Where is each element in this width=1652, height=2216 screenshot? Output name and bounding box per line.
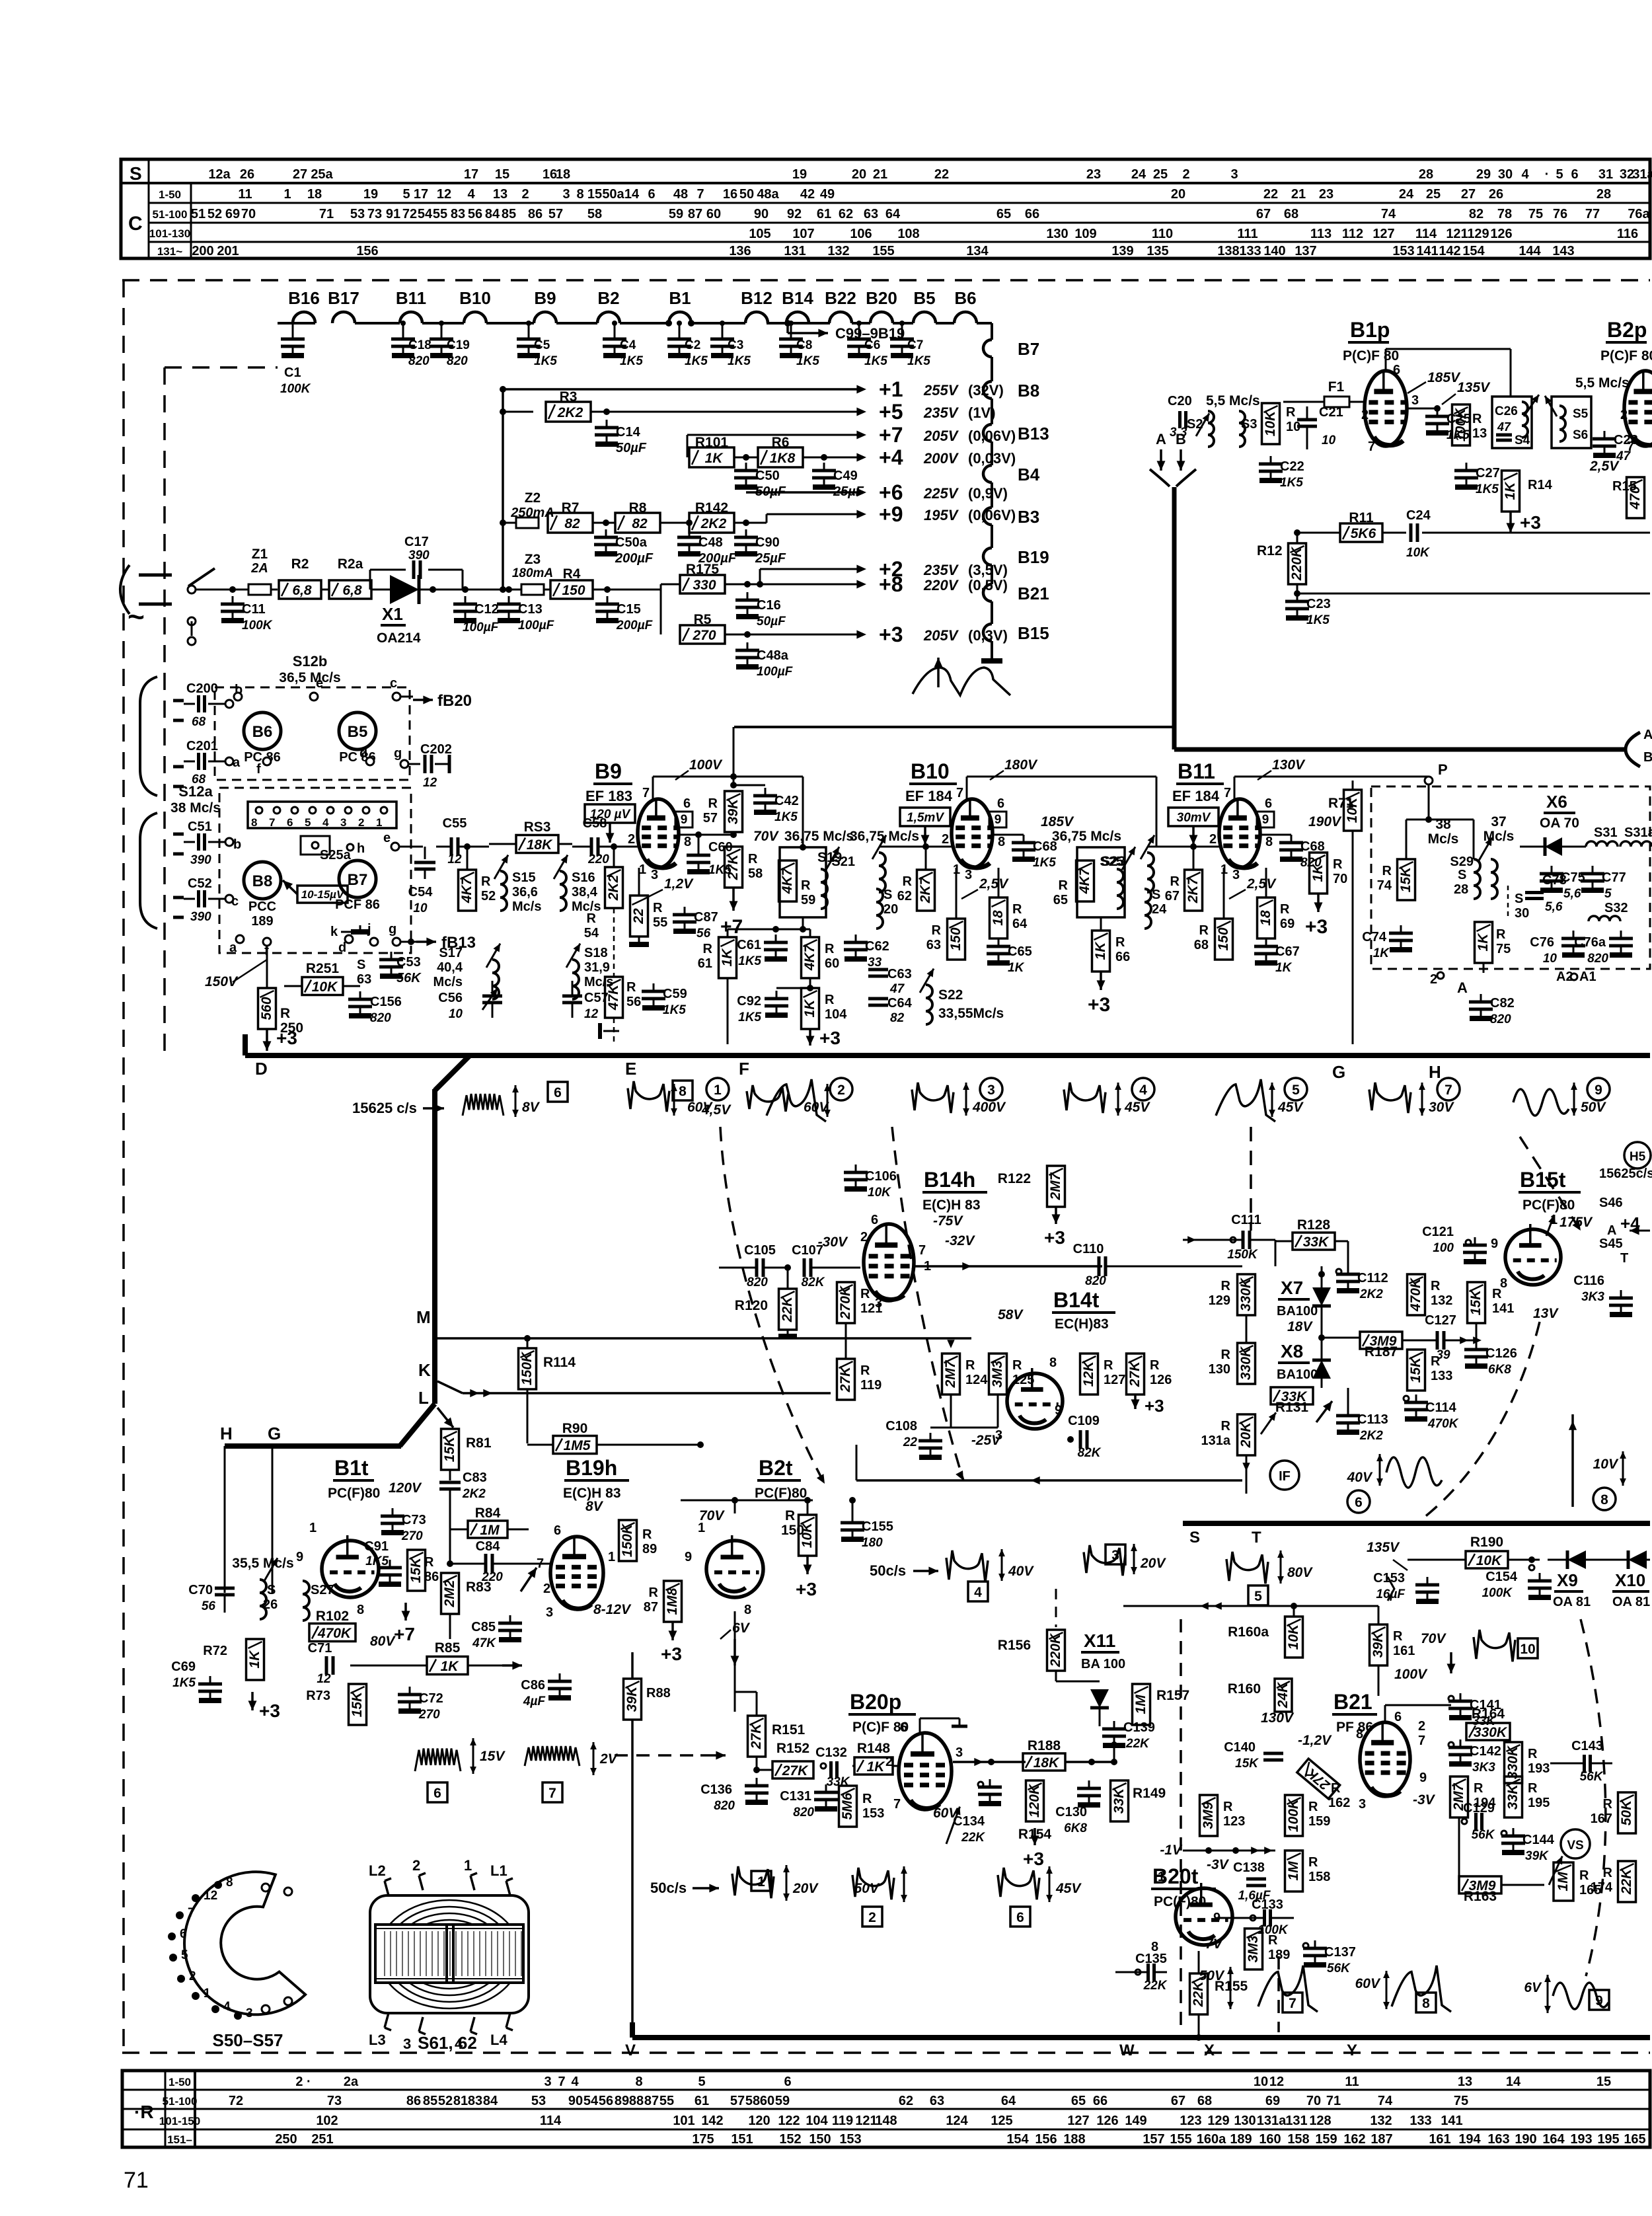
svg-text:18: 18: [307, 187, 322, 202]
svg-text:63: 63: [930, 2094, 944, 2108]
svg-text:5: 5: [1556, 167, 1563, 182]
svg-text:1K5: 1K5: [365, 1554, 389, 1568]
resistor R61 1K: [719, 937, 737, 978]
svg-text:57: 57: [703, 811, 718, 825]
svg-text:100K: 100K: [242, 619, 273, 632]
yoke pin 4: [211, 2005, 219, 2013]
svg-text:4K7: 4K7: [459, 876, 474, 903]
svg-text:RS3: RS3: [524, 820, 551, 835]
svg-text:C143: C143: [1571, 1739, 1603, 1753]
svg-text:2 ·: 2 ·: [295, 2075, 311, 2089]
svg-text:33,55Mc/s: 33,55Mc/s: [938, 1006, 1004, 1021]
svg-text:6K8: 6K8: [1064, 1821, 1087, 1835]
svg-text:12: 12: [1269, 2075, 1284, 2089]
svg-text:10K: 10K: [1263, 410, 1278, 436]
svg-text:7: 7: [188, 1906, 195, 1920]
svg-text:1: 1: [376, 816, 382, 829]
wire 100V anode rail B9: [652, 777, 654, 799]
svg-text:12: 12: [317, 1672, 331, 1686]
svg-text:180V: 180V: [1004, 757, 1038, 773]
svg-text:B4: B4: [1018, 465, 1040, 484]
heater chain right vertical wire: [988, 322, 992, 325]
resistor R174 22K: [1618, 1861, 1636, 1902]
svg-text:3: 3: [965, 868, 972, 882]
svg-text:162: 162: [1343, 2132, 1365, 2147]
svg-text:76a: 76a: [1628, 207, 1650, 221]
wire B10 anode rail: [966, 777, 968, 799]
resistor R175 330: [660, 584, 662, 590]
svg-text:1K5: 1K5: [1306, 613, 1330, 627]
capacitor C12 100uF: [465, 596, 467, 604]
svg-text:C14: C14: [616, 425, 641, 439]
svg-text:R: R: [1012, 1358, 1022, 1373]
svg-text:R14: R14: [1528, 478, 1553, 492]
svg-text:66: 66: [1115, 950, 1130, 964]
heater coil B19: [983, 548, 992, 565]
svg-text:C202: C202: [420, 742, 452, 757]
svg-text:390: 390: [190, 910, 211, 924]
capacitor C2 1K5: [679, 323, 681, 331]
capacitor C106 10K: [855, 1165, 857, 1172]
svg-text:330K: 330K: [1474, 1725, 1508, 1740]
heater coil B15: [983, 624, 992, 641]
svg-text:C67: C67: [1275, 944, 1300, 959]
resistor R159 100K: [1285, 1795, 1303, 1836]
wire B2t cathode down: [734, 1611, 736, 1712]
svg-text:51: 51: [191, 207, 206, 221]
svg-text:e: e: [383, 831, 391, 845]
svg-text:151–: 151–: [167, 2133, 192, 2146]
svg-text:150: 150: [809, 2132, 831, 2147]
svg-text:Y: Y: [1347, 2042, 1357, 2059]
svg-text:3: 3: [1232, 868, 1240, 882]
svg-text:R: R: [626, 980, 636, 995]
svg-text:53: 53: [531, 2094, 546, 2108]
svg-text:70: 70: [1333, 872, 1347, 886]
svg-text:P: P: [1438, 761, 1448, 778]
svg-text:1: 1: [757, 1874, 765, 1890]
svg-text:159: 159: [1315, 2132, 1337, 2147]
resistor R119 27K: [837, 1359, 855, 1400]
svg-text:B12: B12: [741, 288, 772, 308]
svg-text:73: 73: [367, 207, 382, 221]
svg-text:129: 129: [1207, 2114, 1229, 2128]
svg-text:+9: +9: [879, 502, 903, 526]
resistor R250 560: [266, 946, 268, 988]
svg-text:70V: 70V: [1421, 1631, 1446, 1646]
coil S17 40.4 Mc/s: [492, 960, 499, 999]
resistor R62 2K7: [917, 870, 935, 911]
svg-text:VS: VS: [1567, 1839, 1583, 1853]
resistor R195 33K: [1505, 1777, 1522, 1817]
svg-text:71: 71: [1326, 2094, 1341, 2108]
svg-text:C56: C56: [438, 991, 463, 1005]
svg-text:25: 25: [1153, 167, 1168, 182]
capacitor C59 1K5: [653, 983, 655, 991]
svg-text:78: 78: [1497, 207, 1512, 221]
svg-text:1: 1: [464, 1857, 472, 1874]
transformer winding block: [375, 1925, 523, 1983]
wire B20p anode out: [953, 1761, 1018, 1763]
svg-text:R: R: [1474, 1781, 1483, 1796]
svg-text:69: 69: [225, 207, 240, 221]
svg-text:k: k: [330, 925, 338, 939]
svg-text:11: 11: [1345, 2075, 1359, 2089]
svg-text:201: 201: [217, 244, 239, 258]
svg-text:165: 165: [1624, 2132, 1645, 2147]
coil S20: [876, 889, 883, 929]
svg-text:150: 150: [1216, 927, 1231, 950]
svg-text:4: 4: [974, 1585, 982, 1600]
waveform inset 1 4.5V: [706, 1078, 729, 1100]
svg-text:2: 2: [837, 1083, 845, 1098]
svg-text:S18: S18: [584, 946, 608, 960]
svg-text:6: 6: [648, 187, 655, 202]
capacitor C23 1K5: [1296, 593, 1298, 601]
svg-text:60: 60: [760, 2094, 774, 2108]
supply trunk vertical wire: [502, 389, 504, 590]
svg-text:R: R: [1472, 412, 1482, 426]
svg-text:6: 6: [1393, 363, 1400, 377]
svg-text:BA100: BA100: [1277, 1367, 1318, 1382]
svg-text:R: R: [1603, 1797, 1613, 1812]
svg-text:C20: C20: [1168, 394, 1192, 408]
svg-text:3: 3: [1411, 393, 1419, 408]
svg-text:10K: 10K: [1406, 546, 1430, 560]
svg-text:9: 9: [1262, 813, 1269, 827]
svg-text:g: g: [389, 922, 396, 936]
svg-text:9: 9: [681, 813, 688, 827]
svg-text:50V: 50V: [854, 1881, 880, 1896]
svg-text:4K7: 4K7: [802, 944, 817, 971]
svg-text:8V: 8V: [522, 1100, 541, 1115]
100V rail wire to antenna trunk: [734, 726, 1174, 728]
svg-text:2: 2: [942, 832, 949, 847]
circle VS: [1561, 1829, 1590, 1858]
node P: [1425, 777, 1433, 784]
svg-text:114: 114: [1415, 227, 1437, 241]
svg-text:8: 8: [998, 835, 1005, 849]
svg-text:B8: B8: [252, 872, 273, 890]
svg-text:R188: R188: [1028, 1738, 1061, 1753]
svg-text:40,4: 40,4: [437, 960, 463, 975]
capacitor C51 390: [184, 841, 195, 843]
svg-text:3: 3: [1230, 167, 1238, 182]
svg-text:189: 189: [251, 914, 273, 929]
svg-text:Z3: Z3: [525, 552, 541, 567]
svg-text:R: R: [1223, 1800, 1233, 1814]
+6 supply line: [746, 491, 858, 494]
svg-text:47: 47: [1497, 420, 1511, 434]
svg-text:18: 18: [991, 910, 1006, 926]
resistor R126 27K: [1127, 1354, 1145, 1395]
svg-text:C17: C17: [404, 535, 429, 549]
svg-text:30mV: 30mV: [1177, 811, 1211, 825]
svg-text:6: 6: [997, 796, 1004, 811]
svg-text:R160: R160: [1228, 1681, 1261, 1697]
svg-text:86: 86: [528, 207, 543, 221]
svg-text:C53: C53: [396, 955, 421, 970]
svg-text:R: R: [280, 1006, 290, 1021]
svg-text:69: 69: [1265, 2094, 1280, 2108]
svg-text:165: 165: [1579, 1883, 1601, 1897]
capacitor C126 6K8: [1476, 1342, 1478, 1350]
svg-text:C114: C114: [1425, 1400, 1457, 1415]
power arrow +6: [856, 488, 866, 497]
svg-text:127: 127: [1372, 227, 1394, 241]
svg-text:100K: 100K: [280, 382, 311, 396]
svg-text:89: 89: [642, 1542, 657, 1556]
svg-text:R: R: [1221, 1348, 1231, 1362]
wire R12 to right: [1296, 584, 1298, 593]
svg-text:27: 27: [1461, 187, 1476, 202]
svg-text:820: 820: [370, 1011, 391, 1025]
capacitor C155 180: [849, 1497, 856, 1504]
svg-text:11: 11: [238, 187, 252, 202]
svg-text:C8: C8: [796, 338, 812, 352]
svg-text:E: E: [625, 1059, 636, 1079]
capacitor C114 470K: [1415, 1395, 1417, 1402]
svg-text:2,5V: 2,5V: [979, 876, 1009, 892]
svg-text:45V: 45V: [1055, 1881, 1082, 1896]
svg-text:1: 1: [283, 187, 291, 202]
svg-text:C109: C109: [1068, 1414, 1100, 1428]
svg-text:130: 130: [1046, 227, 1068, 241]
svg-text:81: 81: [453, 2094, 468, 2108]
svg-text:F1: F1: [1328, 379, 1345, 395]
svg-text:135V: 135V: [1367, 1540, 1400, 1555]
svg-text:55: 55: [653, 915, 667, 930]
IF label circle: [1270, 1461, 1299, 1490]
svg-text:10K: 10K: [312, 979, 338, 995]
svg-text:13V: 13V: [1533, 1306, 1559, 1321]
svg-text:S: S: [1189, 1529, 1200, 1547]
resistor R121 270K: [837, 1282, 855, 1323]
resistor R3 2K2: [503, 411, 533, 413]
transformer core ellipses: [378, 1900, 521, 2008]
svg-text:120: 120: [748, 2114, 770, 2128]
svg-text:C87: C87: [694, 910, 718, 925]
svg-text:S21: S21: [831, 855, 855, 869]
svg-text:270K: 270K: [838, 1285, 853, 1320]
svg-text:V: V: [625, 2042, 636, 2059]
resistor R149 33K: [1111, 1780, 1129, 1821]
svg-text:153: 153: [839, 2132, 861, 2147]
svg-text:82K: 82K: [802, 1276, 825, 1289]
svg-text:4: 4: [571, 2075, 579, 2089]
capacitor C144 39K: [1501, 1831, 1507, 1836]
svg-text:127: 127: [1104, 1373, 1125, 1387]
svg-text:54: 54: [418, 207, 433, 221]
resistor R5 270: [660, 590, 662, 634]
capacitor C201 68: [184, 761, 195, 763]
svg-text:6: 6: [1355, 1495, 1363, 1510]
svg-text:100V: 100V: [689, 757, 723, 773]
svg-text:X: X: [1204, 2042, 1215, 2059]
svg-text:63: 63: [864, 207, 878, 221]
svg-text:1: 1: [608, 1550, 615, 1564]
svg-text:185V: 185V: [1427, 370, 1461, 385]
svg-text:C69: C69: [171, 1660, 196, 1674]
heater chain wire: [278, 322, 293, 325]
svg-text:R72: R72: [203, 1644, 227, 1658]
svg-text:R: R: [1150, 1358, 1160, 1373]
power arrow +8: [856, 580, 866, 589]
svg-text:3: 3: [651, 868, 658, 882]
resistor R130 330K: [1238, 1343, 1256, 1384]
svg-text:220V: 220V: [923, 577, 959, 593]
svg-text:122: 122: [778, 2114, 800, 2128]
svg-text:200µF: 200µF: [616, 619, 654, 632]
svg-text:2K2: 2K2: [1359, 1287, 1383, 1301]
svg-text:3: 3: [403, 2036, 411, 2052]
svg-text:154: 154: [1006, 2132, 1029, 2147]
svg-text:S25: S25: [1100, 855, 1123, 869]
power arrow +1: [856, 385, 866, 394]
svg-text:193: 193: [1570, 2132, 1592, 2147]
svg-text:141: 141: [1416, 244, 1438, 258]
svg-text:S5: S5: [1573, 407, 1589, 421]
wire R88 to V bus corner: [631, 1720, 634, 2024]
svg-text:C16: C16: [757, 598, 781, 613]
svg-text:B8: B8: [1018, 381, 1039, 401]
svg-text:R: R: [703, 942, 713, 956]
svg-text:C2: C2: [685, 338, 700, 352]
svg-text:24: 24: [1152, 902, 1167, 917]
svg-text:C50: C50: [755, 469, 780, 483]
svg-text:R: R: [932, 923, 942, 938]
svg-text:Mc/s: Mc/s: [512, 899, 541, 914]
svg-text:R: R: [653, 901, 663, 915]
resistor R154 120K: [1026, 1780, 1044, 1821]
svg-text:1K5: 1K5: [774, 810, 798, 824]
svg-text:15K: 15K: [350, 1691, 365, 1717]
svg-text:B9: B9: [595, 759, 622, 783]
svg-text:22: 22: [631, 908, 646, 925]
svg-text:20: 20: [852, 167, 866, 182]
svg-text:B20p: B20p: [850, 1690, 901, 1714]
svg-text:C: C: [128, 213, 143, 235]
svg-text:C24: C24: [1406, 508, 1431, 523]
svg-text:B14t: B14t: [1053, 1288, 1100, 1312]
svg-text:R: R: [1528, 1781, 1538, 1796]
svg-text:1K5: 1K5: [1033, 856, 1056, 870]
svg-text:15V: 15V: [480, 1749, 506, 1764]
svg-text:220: 220: [587, 853, 609, 866]
svg-text:C127: C127: [1425, 1313, 1456, 1328]
thick vertical antenna feed wire: [1172, 487, 1177, 749]
yoke open pins: [262, 1884, 270, 1891]
svg-text:48: 48: [673, 187, 688, 202]
resistor R74 15K: [1398, 859, 1415, 900]
svg-text:1,2V: 1,2V: [664, 876, 694, 892]
terminal e to IF strip: [391, 843, 399, 851]
svg-text:C7: C7: [907, 338, 923, 352]
heater coil B12: [745, 312, 768, 323]
svg-text:26: 26: [240, 167, 254, 182]
capacitor C137 56K: [1303, 1943, 1308, 1948]
waveform inset 8 60V: [628, 1081, 669, 1112]
svg-text:162: 162: [1328, 1796, 1350, 1810]
svg-text:64: 64: [885, 207, 901, 221]
svg-text:R: R: [424, 1555, 434, 1570]
svg-text:820: 820: [714, 1799, 735, 1813]
capacitor C113 2K2: [1347, 1408, 1349, 1416]
svg-text:156: 156: [1035, 2132, 1057, 2147]
svg-text:+3: +3: [796, 1579, 817, 1599]
svg-text:b: b: [233, 837, 241, 852]
svg-text:S31: S31: [1594, 825, 1618, 840]
svg-text:R120: R120: [735, 1298, 768, 1313]
svg-text:R12: R12: [1257, 543, 1283, 558]
svg-text:77: 77: [1585, 207, 1600, 221]
dashed vertical W: [1180, 1619, 1182, 2032]
svg-text:R: R: [825, 942, 835, 956]
svg-text:65: 65: [1071, 2094, 1086, 2108]
svg-text:87: 87: [644, 1600, 658, 1615]
svg-text:X9: X9: [1557, 1570, 1578, 1590]
svg-text:2: 2: [543, 1582, 550, 1596]
svg-text:B5: B5: [913, 288, 935, 308]
svg-text:470K: 470K: [1427, 1417, 1459, 1431]
svg-text:137: 137: [1295, 244, 1316, 258]
svg-text:15625 c/s: 15625 c/s: [352, 1100, 417, 1116]
wire screen B9: [679, 834, 733, 836]
box S5 S6: [1552, 397, 1591, 448]
svg-text:65: 65: [1053, 893, 1068, 907]
svg-text:·R: ·R: [134, 2102, 154, 2122]
capacitor C54 10: [424, 847, 426, 859]
svg-text:C110: C110: [1073, 1242, 1104, 1256]
capacitor C5 1K5: [528, 323, 530, 331]
svg-text:5,5 Mc/s: 5,5 Mc/s: [1206, 393, 1260, 408]
svg-text:1K: 1K: [1093, 941, 1108, 960]
svg-text:130: 130: [1209, 1362, 1230, 1377]
coil S27: [303, 1581, 309, 1621]
svg-text:B7: B7: [1018, 339, 1039, 359]
svg-text:50V: 50V: [1199, 1968, 1225, 1983]
svg-text:2K2: 2K2: [700, 516, 727, 531]
svg-text:125: 125: [1012, 1373, 1034, 1387]
resistor R132 470K: [1408, 1274, 1425, 1315]
svg-text:1M: 1M: [1556, 1872, 1571, 1891]
svg-text:S: S: [1152, 888, 1160, 902]
svg-text:B10: B10: [459, 288, 491, 308]
svg-text:820: 820: [793, 1806, 814, 1819]
heater coil B1: [669, 312, 691, 323]
bottom thick bus: [632, 2035, 1650, 2040]
svg-text:87: 87: [644, 2094, 659, 2108]
svg-text:142: 142: [1439, 244, 1460, 258]
svg-text:10: 10: [1322, 434, 1336, 447]
svg-text:1K: 1K: [1503, 481, 1518, 500]
svg-text:180mA: 180mA: [512, 566, 553, 580]
svg-text:150K: 150K: [1227, 1248, 1258, 1262]
svg-text:45V: 45V: [1124, 1100, 1150, 1115]
svg-text:C116: C116: [1573, 1274, 1604, 1288]
svg-text:8: 8: [1600, 1492, 1608, 1508]
svg-text:33: 33: [868, 956, 882, 970]
svg-text:100K: 100K: [1482, 1586, 1513, 1600]
capacitor C141 33K: [1448, 1696, 1454, 1701]
svg-text:63: 63: [357, 972, 371, 987]
svg-text:163: 163: [1487, 2132, 1509, 2147]
svg-text:20: 20: [1171, 187, 1185, 202]
svg-text:50K: 50K: [1619, 1799, 1634, 1825]
capacitor C72 270: [409, 1687, 411, 1695]
svg-text:50: 50: [739, 187, 754, 202]
mains plug symbol: [139, 574, 172, 577]
